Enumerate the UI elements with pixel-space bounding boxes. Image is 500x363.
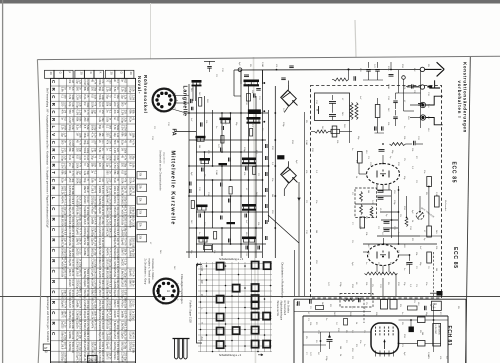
svg-text:4,7n 0,1: 4,7n 0,1	[93, 321, 96, 330]
svg-text:2AF/DR05: 2AF/DR05	[438, 325, 441, 336]
FM inner input filter box	[315, 93, 350, 121]
coil L7 second core	[242, 162, 256, 164]
svg-text:6,8/150k: 6,8/150k	[106, 269, 109, 279]
svg-text:3,3k/39p: 3,3k/39p	[83, 269, 86, 279]
svg-text:8,2n 3,3k: 8,2n 3,3k	[116, 259, 119, 270]
table header box 3	[75, 70, 84, 78]
svg-text:30p 12p: 30p 12p	[63, 207, 66, 216]
svg-text:70/5,6k: 70/5,6k	[121, 217, 124, 226]
matrix left bracket	[197, 265, 203, 344]
tuning capacitor CV2 frame	[281, 167, 297, 183]
svg-text:70 4,7n: 70 4,7n	[63, 300, 66, 309]
capacitor C48	[384, 229, 390, 231]
svg-text:3,3k 220: 3,3k 220	[108, 186, 111, 196]
coil L21	[315, 130, 329, 133]
svg-text:3,3k/39p: 3,3k/39p	[68, 342, 71, 352]
svg-text:39p 250: 39p 250	[131, 248, 134, 257]
svg-text:12p/2n: 12p/2n	[121, 331, 124, 339]
svg-text:45/47k: 45/47k	[91, 321, 94, 329]
capacitor C62	[297, 301, 299, 306]
svg-text:Bei Fernempfang : HF - Ausgang: Bei Fernempfang : HF - Ausgangskondensat…	[46, 88, 49, 228]
wire PA lead	[175, 131, 196, 133]
coil L2 MW winding	[244, 82, 246, 85]
dashed lead to tube top	[363, 299, 365, 323]
svg-text:8,2n 3,3k: 8,2n 3,3k	[78, 196, 81, 207]
capacitor Cm1	[220, 148, 222, 152]
svg-text:5,6k: 5,6k	[86, 125, 89, 130]
junction dots bus j	[274, 112, 276, 114]
resistor R11	[332, 126, 337, 137]
svg-text:47k 6,8: 47k 6,8	[101, 321, 104, 330]
svg-text:1M: 1M	[315, 230, 317, 233]
svg-text:3,3k 220: 3,3k 220	[93, 269, 96, 279]
wire socket to bus 2	[174, 102, 189, 104]
wire filter down	[349, 121, 351, 144]
svg-text:250: 250	[108, 79, 111, 84]
capacitor top C20	[207, 66, 212, 68]
svg-text:0,1 1n: 0,1 1n	[78, 248, 81, 255]
svg-text:ECC 85: ECC 85	[451, 162, 457, 184]
svg-text:5,6k 68k: 5,6k 68k	[101, 311, 104, 321]
wire vertical bus f	[248, 84, 250, 258]
svg-text:47k 6,8: 47k 6,8	[116, 227, 119, 236]
resistor R4	[191, 201, 194, 209]
electrolytic C61	[409, 327, 414, 333]
svg-text:70 4,7n: 70 4,7n	[78, 227, 81, 236]
tuning capacitor CV1 frame	[281, 90, 297, 106]
svg-text:12p/2n: 12p/2n	[83, 279, 86, 287]
svg-text:1M 18k: 1M 18k	[116, 352, 119, 361]
svg-text:register s. Textteil sowie: register s. Textteil sowie	[147, 259, 150, 285]
svg-text:6,8/150k: 6,8/150k	[61, 217, 64, 227]
svg-text:Röhrensockel: Röhrensockel	[143, 75, 148, 114]
wire ru 5	[377, 124, 379, 133]
svg-text:18k/70: 18k/70	[106, 352, 109, 360]
svg-text:3,3k 220: 3,3k 220	[101, 238, 104, 248]
resistor Rm2	[229, 187, 232, 195]
svg-text:1,2k 1M: 1,2k 1M	[123, 331, 126, 340]
svg-text:70/5,6k: 70/5,6k	[61, 269, 64, 278]
svg-text:2n/220: 2n/220	[83, 196, 86, 204]
svg-text:3,3k: 3,3k	[78, 102, 81, 107]
capacitor C37	[418, 103, 423, 105]
tuning capacitor CV1 vane	[283, 92, 291, 98]
svg-text:0,1 1n: 0,1 1n	[71, 279, 74, 286]
svg-text:1M: 1M	[101, 178, 104, 181]
svg-text:1n 100p: 1n 100p	[116, 321, 119, 330]
svg-text:M: M	[200, 294, 203, 296]
svg-text:220/30p: 220/30p	[61, 352, 64, 362]
svg-text:560 45: 560 45	[116, 331, 119, 339]
margin stamp box HT90	[43, 344, 50, 350]
svg-text:560/12p: 560/12p	[91, 248, 94, 258]
svg-text:18k/70: 18k/70	[83, 186, 86, 194]
stamp box 24	[88, 356, 98, 363]
matrix grid horizontal lines	[198, 263, 272, 265]
svg-text:70/5,6k: 70/5,6k	[113, 269, 116, 278]
capacitor C13	[257, 246, 259, 250]
svg-text:39p/3,3k: 39p/3,3k	[121, 186, 124, 196]
resistor Rm3	[214, 232, 217, 240]
svg-text:2n/220: 2n/220	[129, 300, 132, 308]
svg-text:68k 8,2n: 68k 8,2n	[93, 290, 96, 300]
svg-text:3,3k: 3,3k	[131, 87, 134, 92]
matrix grid vertical lines	[200, 262, 202, 352]
svg-text:0,5M: 0,5M	[305, 140, 307, 145]
wire FM h	[355, 203, 377, 205]
svg-text:1n 100p: 1n 100p	[123, 269, 126, 278]
coil L10 core	[198, 237, 209, 240]
junction dots AM matrix	[188, 112, 190, 114]
svg-text:45/47k: 45/47k	[98, 290, 101, 298]
coil L25 dashes	[365, 272, 398, 275]
svg-text:68k 8,2n: 68k 8,2n	[101, 259, 104, 269]
ferrite bar	[173, 338, 190, 340]
capacitor C7	[245, 167, 247, 171]
coil L2 third core	[248, 109, 261, 114]
capacitor C5	[200, 122, 202, 126]
svg-text:12p 70: 12p 70	[71, 207, 74, 215]
wire top link	[204, 61, 215, 63]
capacitor Cb	[265, 156, 267, 160]
wire horizontal h3	[196, 151, 262, 153]
svg-text:4,7n: 4,7n	[71, 171, 74, 176]
svg-text:1,2k/560: 1,2k/560	[76, 217, 79, 227]
svg-text:47k/1n: 47k/1n	[121, 300, 124, 308]
wire vertical bus b	[196, 84, 198, 258]
tuning capacitor CV2 leads	[288, 161, 290, 167]
tube V2 pin leads	[376, 265, 378, 272]
svg-text:18k 2n: 18k 2n	[108, 352, 111, 360]
svg-text:1,2k/560: 1,2k/560	[68, 248, 71, 258]
capacitor Cf	[265, 220, 267, 224]
resistor R34	[408, 306, 418, 310]
svg-text:39p/3,3k: 39p/3,3k	[68, 206, 71, 216]
svg-text:2n/220: 2n/220	[68, 279, 71, 287]
scanner top bar	[0, 0, 500, 3]
svg-text:220: 220	[433, 303, 438, 306]
svg-text:68k/2,2M: 68k/2,2M	[98, 258, 101, 268]
svg-text:1M/1,2k: 1M/1,2k	[113, 186, 116, 196]
svg-text:5,6k/100p: 5,6k/100p	[129, 310, 132, 322]
coil L1 second core	[192, 85, 202, 87]
tube V1 pin leads	[376, 184, 378, 190]
svg-text:220/30p: 220/30p	[83, 227, 86, 237]
table header box 7	[115, 70, 124, 78]
svg-text:150k 1,2k: 150k 1,2k	[108, 227, 111, 238]
scan crease C	[254, 57, 256, 363]
resistor R24	[427, 226, 432, 237]
svg-text:560 45: 560 45	[71, 300, 74, 308]
svg-text:12p/2n: 12p/2n	[91, 238, 94, 246]
wire ru 1	[399, 92, 421, 94]
svg-text:5,6k 68k: 5,6k 68k	[71, 186, 74, 196]
svg-text:1M: 1M	[339, 346, 341, 349]
wire diamond link bottom	[283, 190, 285, 197]
capacitor C12	[245, 246, 247, 250]
boxed label power	[432, 301, 442, 310]
svg-text:2,2M 560: 2,2M 560	[108, 196, 111, 207]
coil L24	[405, 218, 408, 227]
svg-text:150k/18k: 150k/18k	[113, 227, 116, 238]
capacitor C46	[378, 197, 384, 199]
transformer T1 secondary	[355, 103, 358, 120]
wire antenna feed	[410, 104, 420, 106]
wire FM h	[377, 235, 420, 237]
svg-text:0,5M/0,1: 0,5M/0,1	[98, 248, 101, 258]
svg-text:220/30p: 220/30p	[76, 279, 79, 289]
wire vertical bus d	[212, 110, 214, 166]
switch contact	[252, 262, 259, 269]
svg-text:250 0,5M: 250 0,5M	[78, 207, 81, 217]
tube V3 ECH81 envelope	[371, 323, 399, 354]
svg-text:Drucktasten in Ruhestellung: Drucktasten in Ruhestellung	[280, 263, 284, 298]
coil L4 second core	[247, 122, 261, 124]
svg-text:0,1/6,8: 0,1/6,8	[91, 186, 94, 194]
tuning capacitor CV1 arrow	[293, 101, 297, 105]
capacitor C36	[381, 126, 383, 130]
tube socket lower shield bar	[157, 288, 160, 294]
wire vertical bus i	[268, 110, 270, 222]
svg-text:18k 2n: 18k 2n	[78, 238, 81, 246]
coil L4 winding	[247, 120, 249, 123]
svg-text:Rückseite d. Blattes: Rückseite d. Blattes	[151, 259, 154, 281]
svg-text:20: 20	[129, 72, 133, 75]
coil L11 core	[242, 237, 256, 240]
svg-text:30p: 30p	[86, 117, 89, 122]
tube socket lower pins	[162, 297, 165, 300]
svg-text:560 45: 560 45	[63, 342, 66, 350]
svg-text:220 30p: 220 30p	[123, 352, 126, 361]
svg-text:560 45: 560 45	[78, 269, 81, 277]
paper left edge	[37, 60, 41, 363]
switch contact	[263, 313, 270, 320]
svg-text:6,8 47k: 6,8 47k	[93, 217, 96, 226]
svg-text:2,2M/1M: 2,2M/1M	[121, 352, 124, 362]
svg-text:Senderwahl an der Chassisrück: Senderwahl an der Chassisrückseite	[159, 150, 162, 191]
paper top edge	[37, 56, 500, 59]
svg-text:30p/45: 30p/45	[61, 300, 64, 308]
svg-text:30p: 30p	[78, 148, 81, 153]
boxed label voltages	[433, 324, 441, 347]
svg-text:vorbehalten !: vorbehalten !	[457, 81, 462, 119]
svg-text:2,2M 560: 2,2M 560	[101, 248, 104, 259]
svg-text:Zu Drucktasten u. Klang-: Zu Drucktasten u. Klang-	[144, 259, 147, 286]
svg-text:250: 250	[86, 163, 89, 168]
svg-text:250 0,5M: 250 0,5M	[116, 269, 119, 279]
svg-text:18k/70: 18k/70	[61, 310, 64, 318]
resistor R31	[418, 317, 426, 323]
svg-text:0,1/6,8: 0,1/6,8	[113, 331, 116, 339]
svg-text:2,2M 560: 2,2M 560	[93, 279, 96, 290]
svg-text:1n 100p: 1n 100p	[71, 290, 74, 299]
svg-text:39p: 39p	[101, 117, 104, 122]
resistor R21	[358, 152, 363, 164]
svg-text:0,5M: 0,5M	[435, 192, 437, 197]
svg-text:560 45: 560 45	[86, 217, 89, 225]
capacitor Ca	[265, 144, 267, 148]
svg-text:2n 39p: 2n 39p	[123, 342, 126, 350]
wires FM mid	[391, 190, 393, 238]
svg-text:4,7n: 4,7n	[86, 110, 89, 115]
svg-text:39p/3,3k: 39p/3,3k	[61, 238, 64, 248]
svg-text:HT: HT	[44, 346, 48, 350]
svg-text:1,2k 1M: 1,2k 1M	[78, 321, 81, 330]
svg-text:18k 2n: 18k 2n	[71, 269, 74, 277]
svg-text:220 30p: 220 30p	[86, 300, 89, 309]
svg-text:250/0,5M: 250/0,5M	[106, 258, 109, 268]
svg-text:250: 250	[93, 140, 96, 145]
wire FM h	[380, 211, 399, 213]
svg-text:4,7n 0,1: 4,7n 0,1	[116, 196, 119, 205]
svg-text:ECH 81: ECH 81	[446, 326, 452, 347]
tube V1 electrodes	[376, 171, 378, 178]
svg-text:1n/68k: 1n/68k	[68, 331, 71, 339]
svg-text:2n/220: 2n/220	[113, 310, 116, 318]
wire FM h	[363, 243, 437, 245]
svg-text:5,6k 68k: 5,6k 68k	[116, 217, 119, 227]
svg-text:0,1 1n: 0,1 1n	[116, 311, 119, 318]
svg-text:0,5M: 0,5M	[261, 62, 263, 67]
coil L5 PA winding	[196, 138, 198, 141]
svg-text:12p: 12p	[86, 140, 89, 145]
svg-text:5,6k: 5,6k	[123, 171, 126, 176]
svg-text:250/0,5M: 250/0,5M	[113, 206, 116, 216]
wire diamond link top	[288, 81, 290, 85]
svg-text:6,8 47k: 6,8 47k	[101, 186, 104, 195]
svg-text:3,3k: 3,3k	[116, 155, 119, 160]
tube V1 ECC85a envelope	[367, 164, 400, 185]
junction dot bus	[348, 68, 350, 70]
svg-text:560/12p: 560/12p	[83, 290, 86, 300]
coil L4 core	[247, 117, 261, 120]
svg-text:47k 6,8: 47k 6,8	[71, 196, 74, 205]
svg-text:1n/68k: 1n/68k	[121, 310, 124, 318]
svg-text:2,2M: 2,2M	[123, 125, 126, 130]
svg-text:Filterabgleichstellungen: Filterabgleichstellungen	[180, 274, 184, 304]
svg-text:1M: 1M	[435, 268, 437, 271]
resistor R1	[199, 98, 202, 107]
junction dots L2 column	[263, 82, 265, 84]
svg-text:1M 18k: 1M 18k	[123, 300, 126, 309]
svg-text:4,7n 0,1: 4,7n 0,1	[101, 290, 104, 299]
wire chassis lead	[407, 86, 420, 88]
wire horizontal h9	[196, 243, 266, 245]
svg-text:1,2k/560: 1,2k/560	[61, 290, 64, 300]
svg-text:2n/220: 2n/220	[61, 321, 64, 329]
switch contact	[252, 284, 259, 291]
svg-text:250 0,5M: 250 0,5M	[63, 269, 66, 279]
svg-text:39p: 39p	[93, 148, 96, 153]
switch contact	[217, 328, 224, 335]
switch contact	[217, 296, 224, 303]
svg-text:2n 39p: 2n 39p	[78, 331, 81, 339]
wire mid vertical 3	[294, 250, 296, 296]
svg-text:3,3k 220: 3,3k 220	[86, 311, 89, 321]
svg-text:220/30p: 220/30p	[113, 342, 116, 352]
trimmer cap CT1	[416, 212, 424, 220]
svg-text:68k/2,2M: 68k/2,2M	[106, 206, 109, 216]
wire FM h	[377, 195, 391, 197]
svg-text:560: 560	[108, 125, 111, 130]
capacitor C4	[221, 126, 223, 130]
svg-text:8,2n 3,3k: 8,2n 3,3k	[101, 352, 104, 363]
svg-text:500k 2,2M: 500k 2,2M	[71, 342, 74, 353]
svg-text:2,2M: 2,2M	[116, 163, 119, 168]
svg-text:6,8 47k: 6,8 47k	[86, 248, 89, 257]
svg-text:2n 39p: 2n 39p	[86, 290, 89, 298]
svg-text:39p 250: 39p 250	[116, 279, 119, 288]
wire right verticals	[398, 70, 400, 93]
svg-text:6,3V/2W7: 6,3V/2W7	[434, 325, 436, 335]
svg-text:1n/68k: 1n/68k	[83, 248, 86, 256]
svg-text:47k/1n: 47k/1n	[113, 352, 116, 360]
svg-text:Spannungen und Ströme gem. Sch: Spannungen und Ströme gem. Schaltbild	[46, 296, 49, 342]
table outer border	[51, 78, 136, 363]
svg-text:8,2n 3,3k: 8,2n 3,3k	[123, 207, 126, 218]
svg-text:8,2n 3,3k: 8,2n 3,3k	[71, 227, 74, 238]
svg-text:500k: 500k	[71, 95, 74, 101]
svg-text:30p: 30p	[71, 178, 74, 183]
coil L20	[334, 78, 349, 81]
wire ru 6	[368, 76, 370, 80]
svg-text:Fünfkr.-Super 2128: Fünfkr.-Super 2128	[189, 301, 193, 324]
tube V3 pins	[375, 351, 377, 357]
svg-text:500k: 500k	[116, 125, 119, 131]
svg-text:0,1/6,8: 0,1/6,8	[68, 300, 71, 308]
coil L8 winding	[197, 207, 199, 210]
T2 coil b	[360, 205, 363, 215]
coil L9 winding	[243, 207, 245, 210]
svg-text:30p 12p: 30p 12p	[116, 207, 119, 216]
resistor R32	[418, 341, 426, 347]
svg-text:6,8/150k: 6,8/150k	[113, 217, 116, 227]
svg-text:39p: 39p	[108, 87, 111, 92]
svg-text:30p/45: 30p/45	[68, 258, 71, 266]
capacitor Cm5	[228, 199, 230, 203]
svg-text:1M: 1M	[63, 110, 66, 113]
svg-text:12p: 12p	[78, 171, 81, 176]
svg-text:39p 250: 39p 250	[108, 331, 111, 340]
coil L8 core	[196, 205, 208, 208]
svg-text:8,2n/250: 8,2n/250	[83, 342, 86, 352]
wire tube2 drop	[370, 278, 372, 296]
svg-text:1M: 1M	[271, 194, 273, 197]
table header box 0	[45, 70, 54, 78]
wire L21 row	[311, 131, 315, 133]
svg-text:220/30p: 220/30p	[129, 342, 132, 352]
svg-text:Schaltrichtung a + b: Schaltrichtung a + b	[219, 354, 242, 357]
svg-text:0,1/6,8: 0,1/6,8	[83, 217, 86, 225]
IF can dashed straddling fold	[340, 294, 373, 308]
svg-text:150k/18k: 150k/18k	[61, 227, 64, 238]
svg-text:150k: 150k	[78, 133, 81, 139]
svg-text:0,5M/0,1: 0,5M/0,1	[106, 196, 109, 206]
svg-text:1,2k/560: 1,2k/560	[106, 331, 109, 341]
svg-text:4,7n: 4,7n	[93, 79, 96, 84]
svg-text:47k/1n: 47k/1n	[91, 206, 94, 214]
capacitor C38	[389, 74, 394, 76]
wire fm stub 1	[399, 254, 410, 256]
svg-text:18k 2n: 18k 2n	[131, 279, 134, 287]
svg-text:560: 560	[63, 95, 66, 100]
T2 coil a	[360, 192, 363, 202]
capacitor C3	[256, 88, 261, 90]
capacitor C11	[244, 214, 246, 218]
svg-text:560/12p: 560/12p	[121, 342, 124, 352]
coil L2 MW core	[244, 80, 260, 83]
svg-text:4,7n/500k: 4,7n/500k	[129, 217, 132, 229]
